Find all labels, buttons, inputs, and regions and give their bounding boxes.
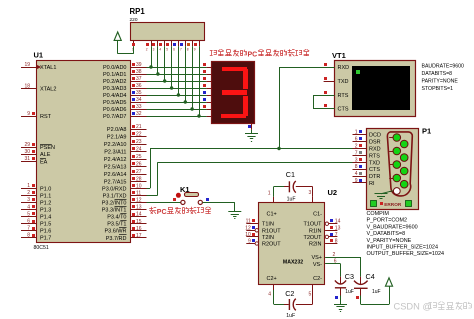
- wire RP1 pin 9 vertical: [199, 46, 201, 116]
- P1 DB9 silhouette: [387, 132, 412, 196]
- svg-text:P1.6: P1.6: [40, 229, 51, 235]
- U1 pin 9 RST: [21, 116, 36, 118]
- svg-text:P1.1: P1.1: [40, 193, 51, 199]
- segment b: [243, 69, 248, 89]
- U1 pin 22 P2.1/A9: [130, 136, 147, 138]
- P1 DB9 pin circle R1: [400, 140, 408, 148]
- display pin indicator seg3: [203, 84, 206, 87]
- svg-text:BAUDRATE=9600: BAUDRATE=9600: [422, 63, 465, 69]
- U2 pin 13 R1IN: [325, 230, 337, 232]
- P1 pin 2 RXD: [353, 148, 367, 150]
- wire P0.1 row to display: [147, 74, 207, 76]
- U1 pin 19 XTAL1: [21, 67, 36, 69]
- svg-text:VT1: VT1: [332, 51, 346, 60]
- svg-text:P2.5/A13: P2.5/A13: [104, 165, 127, 171]
- svg-text:2: 2: [27, 190, 30, 196]
- svg-text:P0.4/AD4: P0.4/AD4: [103, 93, 127, 99]
- svg-text:33: 33: [136, 104, 142, 110]
- red annotation: 向PC机发送字符串: [149, 208, 153, 210]
- display pin stub seg0: [207, 67, 212, 69]
- svg-text:1uF: 1uF: [287, 197, 296, 203]
- wire P0.7 row to display: [147, 116, 207, 118]
- U1 pin 13 P3.3/INT1: [130, 209, 147, 211]
- svg-text:T1OUT: T1OUT: [303, 222, 322, 228]
- wire net TXD: U1 P3.1 to P1 TXD: [147, 195, 158, 197]
- P1 pin 4 DTR: [353, 176, 367, 178]
- svg-text:DATABITS=8: DATABITS=8: [422, 71, 453, 77]
- svg-text:T2IN: T2IN: [262, 235, 274, 241]
- segment d: [221, 114, 246, 118]
- junction node P0.7: [197, 114, 200, 117]
- svg-text:1: 1: [355, 130, 358, 136]
- svg-text:24: 24: [136, 147, 142, 153]
- svg-text:13: 13: [335, 225, 341, 231]
- svg-text:P1.5: P1.5: [40, 222, 51, 228]
- U2 pin 5 C2- bottom: [312, 284, 314, 290]
- svg-text:DSR: DSR: [369, 140, 381, 146]
- U1 pin 34 P0.5/AD5: [130, 102, 147, 104]
- wire P0.0 row to display: [147, 67, 207, 69]
- svg-text:18: 18: [24, 83, 30, 89]
- svg-text:P0.1/AD1: P0.1/AD1: [103, 72, 127, 78]
- svg-text:8: 8: [187, 48, 189, 52]
- P1 ERROR indicator right square: [406, 201, 412, 207]
- P1 ERROR text with red square: [380, 202, 383, 205]
- display pin stub seg3: [207, 88, 212, 90]
- U1 pin 6 P1.5: [21, 223, 36, 225]
- P1 DB9 pin circle L2: [389, 151, 393, 153]
- svg-text:RTS: RTS: [369, 153, 380, 159]
- svg-text:P2.7/A15: P2.7/A15: [104, 180, 127, 186]
- svg-text:15: 15: [136, 219, 142, 225]
- svg-text:C1+: C1+: [267, 212, 277, 218]
- svg-text:1: 1: [268, 190, 271, 196]
- svg-text:P3.6/WR: P3.6/WR: [104, 229, 126, 235]
- U1 pin 29 PSEN: [21, 147, 36, 149]
- RP1 pin 5: [171, 41, 173, 47]
- wire RP1 pin 7 vertical: [185, 46, 187, 102]
- U1 pin 10 P3.0/RXD: [130, 188, 147, 190]
- P1 DB9 pin circle R3: [400, 167, 408, 175]
- svg-text:P1.4: P1.4: [40, 215, 51, 221]
- display pin stub seg5: [207, 102, 212, 104]
- svg-text:34: 34: [136, 97, 142, 103]
- svg-text:P0.2/AD2: P0.2/AD2: [103, 79, 127, 85]
- svg-text:4: 4: [268, 292, 271, 298]
- svg-text:P2.4/A12: P2.4/A12: [104, 157, 127, 163]
- U1 pin 26 P2.5/A13: [130, 166, 147, 168]
- svg-text:STOPBITS=1: STOPBITS=1: [422, 86, 454, 92]
- U1 pin 8 P1.7: [21, 237, 36, 239]
- U2 pin 8 R2IN: [325, 243, 337, 245]
- svg-text:5: 5: [166, 48, 168, 52]
- svg-text:R2IN: R2IN: [309, 242, 322, 248]
- svg-text:5: 5: [27, 211, 30, 217]
- svg-text:V_PARITY=NONE: V_PARITY=NONE: [367, 238, 412, 244]
- ground for K1: [228, 211, 241, 213]
- svg-text:14: 14: [136, 212, 142, 218]
- U2 pin 10 T2IN: [246, 236, 258, 238]
- svg-text:3: 3: [153, 48, 155, 52]
- P1 pin 7 RTS: [353, 155, 367, 157]
- wire RP1 pin 6 vertical: [178, 46, 180, 95]
- wire RP1 pin 8 vertical: [192, 46, 194, 109]
- segment g: [222, 90, 247, 95]
- svg-text:8: 8: [27, 233, 30, 239]
- RP1 pin 4: [164, 41, 166, 47]
- svg-text:P2.3/A11: P2.3/A11: [104, 150, 126, 156]
- resistor pack RP1 body: [131, 23, 205, 41]
- display pin stub seg6: [207, 109, 212, 111]
- svg-text:RI: RI: [369, 181, 375, 187]
- svg-text:6: 6: [355, 137, 358, 143]
- U1 pin 14 P3.4/T0: [130, 216, 147, 218]
- svg-text:C1: C1: [286, 170, 295, 179]
- svg-text:14: 14: [335, 219, 341, 225]
- 7-segment display body: [212, 62, 255, 124]
- U1 pin 23 P2.2/A10: [130, 144, 147, 146]
- svg-text:P3.0/RXD: P3.0/RXD: [102, 186, 126, 192]
- U1 XTAL1 clock arrow: [36, 65, 41, 70]
- svg-text:CTS: CTS: [369, 167, 380, 173]
- IC U2 MAX232 body: [259, 203, 325, 285]
- RP1 pin 9: [199, 41, 201, 47]
- U2 pin 3 C1- top: [312, 197, 314, 203]
- button K1: [181, 200, 185, 204]
- svg-text:26: 26: [136, 162, 142, 168]
- svg-text:CTS: CTS: [338, 107, 349, 113]
- U1 pin 39 P0.0/AD0: [130, 67, 147, 69]
- svg-text:11: 11: [246, 219, 251, 225]
- wire K1 to ground: [203, 202, 235, 204]
- svg-text:C2+: C2+: [267, 276, 277, 282]
- U1 pin 11 P3.1/TXD: [130, 195, 147, 197]
- svg-text:11: 11: [136, 191, 141, 197]
- RP1 pin 8: [192, 41, 194, 47]
- U1 pin 27 P2.6/A14: [130, 174, 147, 176]
- RP1 pin 1: [133, 41, 135, 47]
- svg-text:3: 3: [355, 157, 358, 163]
- VT1 TXD stub: [324, 81, 335, 83]
- svg-text:9: 9: [27, 111, 30, 117]
- svg-text:10: 10: [136, 183, 142, 189]
- display pin indicator seg4: [203, 91, 206, 94]
- svg-text:OUTPUT_BUFFER_SIZE=1024: OUTPUT_BUFFER_SIZE=1024: [367, 251, 445, 257]
- U2 pin 7 T2OUT: [325, 236, 337, 238]
- wire C3 to ground: [340, 288, 342, 296]
- U1 pin 30 ALE: [21, 154, 36, 156]
- ground for display: [251, 130, 253, 134]
- svg-text:P1: P1: [422, 127, 431, 136]
- svg-text:6: 6: [27, 218, 30, 224]
- U2 pin 4 C2+ bottom: [273, 284, 275, 290]
- display pin indicator seg0: [203, 63, 206, 66]
- wire P0.5 row to display: [147, 102, 207, 104]
- svg-text:MAX232: MAX232: [283, 260, 303, 266]
- svg-text:2: 2: [146, 48, 148, 52]
- svg-text:PC: PC: [157, 209, 167, 216]
- svg-text:P0.0/AD0: P0.0/AD0: [103, 65, 127, 71]
- U1 pin 35 P0.4/AD4: [130, 95, 147, 97]
- junction node P0.4: [177, 93, 180, 96]
- K1 pin indicators: [173, 198, 176, 201]
- svg-text:PC: PC: [248, 51, 258, 58]
- display pin stub seg4: [207, 95, 212, 97]
- svg-text:5: 5: [309, 292, 312, 298]
- wire RP1 pin 5 vertical: [171, 46, 173, 88]
- svg-text:35: 35: [136, 90, 142, 96]
- wire U2 pin4 to C2: [273, 290, 275, 304]
- wire net RXD to VT1 RXD: [279, 67, 281, 149]
- wire RP1 pin 3 vertical: [157, 46, 159, 74]
- junction node P0.3: [170, 86, 173, 89]
- svg-text:P3.7/RD: P3.7/RD: [106, 236, 127, 242]
- U1 pin 33 P0.6/AD6: [130, 109, 147, 111]
- svg-text:P2.6/A14: P2.6/A14: [104, 172, 127, 178]
- U1 pin 7 P1.6: [21, 230, 36, 232]
- svg-text:12: 12: [136, 198, 142, 204]
- svg-text:2: 2: [355, 144, 358, 150]
- svg-text:ALE: ALE: [40, 152, 51, 158]
- U1 pin 18 XTAL2: [21, 88, 36, 90]
- svg-text:1uF: 1uF: [286, 313, 295, 319]
- svg-text:7: 7: [27, 225, 30, 231]
- P1 DB9 shell pin circle: [389, 191, 393, 193]
- wire P0.3 row to display: [147, 88, 207, 90]
- svg-text:4: 4: [355, 171, 358, 177]
- wire U2 pin1 to C1: [273, 187, 275, 197]
- junction node P0.0: [149, 65, 152, 68]
- P1 internal ground: [381, 191, 393, 194]
- svg-text:16: 16: [136, 226, 142, 232]
- svg-text:9: 9: [248, 239, 251, 245]
- wire C4 to power: [360, 288, 362, 296]
- svg-text:21: 21: [136, 124, 142, 130]
- svg-text:P1.2: P1.2: [40, 200, 51, 206]
- svg-text:VS-: VS-: [313, 262, 322, 268]
- RP1 pin 6: [178, 41, 180, 47]
- display pin indicator seg2: [203, 77, 206, 80]
- svg-text:CSDN @: CSDN @: [394, 302, 432, 312]
- U1 pin 1 P1.0: [21, 188, 36, 190]
- svg-text:3: 3: [309, 190, 312, 196]
- wire P0.2 row to display: [147, 81, 207, 83]
- svg-text:RST: RST: [40, 114, 52, 120]
- U1 pin 15 P3.5/T1: [130, 223, 147, 225]
- wire C1 to U2 pin3: [296, 186, 313, 188]
- svg-text:TXD: TXD: [369, 160, 380, 166]
- U1 pin 32 P0.7/AD7: [130, 116, 147, 118]
- junction node P0.6: [190, 107, 193, 110]
- wire RP1 pin 4 vertical: [164, 46, 166, 81]
- svg-text:4: 4: [159, 48, 161, 52]
- segment a: [222, 67, 247, 71]
- wire P0.4 row to display: [147, 95, 207, 97]
- junction node P0.1: [156, 72, 159, 75]
- svg-text:XTAL1: XTAL1: [40, 65, 56, 71]
- P1 ERROR indicator left square: [371, 201, 377, 207]
- svg-text:7: 7: [335, 232, 338, 238]
- display pin stub seg7: [207, 116, 212, 118]
- svg-text:9: 9: [194, 48, 196, 52]
- svg-text:U2: U2: [328, 188, 338, 197]
- svg-text:36: 36: [136, 83, 142, 89]
- wire VT1 RTS-CTS loop: [313, 95, 335, 97]
- svg-text:1uF: 1uF: [345, 289, 354, 295]
- svg-text:RTS: RTS: [338, 93, 349, 99]
- wire power to RP1 pin 1: [117, 40, 119, 53]
- svg-text:P3.3/INT1: P3.3/INT1: [102, 208, 127, 214]
- capacitor C2: [288, 299, 290, 310]
- P1 pin 3 TXD: [353, 162, 367, 164]
- svg-text:EA: EA: [40, 159, 48, 165]
- U1 pin 28 P2.7/A15: [130, 181, 147, 183]
- svg-text:C4: C4: [366, 272, 375, 281]
- svg-text:INPUT_BUFFER_SIZE=1024: INPUT_BUFFER_SIZE=1024: [367, 245, 438, 251]
- svg-text:P3.5/T1: P3.5/T1: [107, 222, 126, 228]
- U2 pin 9 R2OUT: [246, 243, 258, 245]
- VT1 cursor: [356, 70, 360, 74]
- svg-text:P1.3: P1.3: [40, 208, 51, 214]
- svg-text:PSEN: PSEN: [40, 145, 55, 151]
- P1 DB9 pin circle R2: [400, 154, 408, 162]
- U1 pin 17 P3.7/RD: [130, 237, 147, 239]
- svg-text:8: 8: [335, 239, 338, 245]
- svg-text:2: 2: [333, 252, 336, 258]
- P1 DB9 pin circle L4: [389, 178, 393, 180]
- wire U1 P3.2 to K1: [147, 202, 181, 204]
- capacitor C1: [288, 181, 290, 192]
- svg-text:7: 7: [355, 150, 358, 156]
- P1 pin 9 RI: [353, 182, 367, 184]
- segment c: [243, 96, 248, 116]
- U1 pin 2 P1.1: [21, 195, 36, 197]
- U1 pin 25 P2.4/A12: [130, 159, 147, 161]
- U2 pin 12 R1OUT: [246, 230, 258, 232]
- svg-text:U1: U1: [34, 51, 44, 60]
- C3 pin indicator: [335, 296, 338, 299]
- svg-text:37: 37: [136, 76, 142, 82]
- svg-text:80C51: 80C51: [34, 245, 49, 251]
- capacitor C4: [354, 281, 368, 285]
- capacitor C3: [335, 280, 346, 284]
- wire C2 to U2 pin5: [296, 304, 313, 306]
- svg-text:1: 1: [27, 183, 30, 189]
- U1 pin 5 P1.4: [21, 216, 36, 218]
- svg-text:27: 27: [136, 169, 142, 175]
- svg-text:29: 29: [24, 142, 30, 148]
- svg-text:8: 8: [355, 164, 358, 170]
- svg-text:220: 220: [130, 17, 138, 23]
- svg-text:V_DATABITS=8: V_DATABITS=8: [367, 231, 406, 237]
- U2 pin 11 T1IN: [246, 223, 258, 225]
- U1 pin 36 P0.3/AD3: [130, 88, 147, 90]
- U2 pin 1 C1+ top: [273, 197, 275, 203]
- svg-text:9: 9: [355, 178, 358, 184]
- svg-text:25: 25: [136, 154, 142, 160]
- svg-text:T2OUT: T2OUT: [303, 235, 322, 241]
- wire U2 VS- to C3: [325, 263, 340, 265]
- wire U2 VS+ to C4: [325, 257, 361, 259]
- svg-text:P3.1/TXD: P3.1/TXD: [103, 193, 127, 199]
- wire P0.6 row to display: [147, 109, 207, 111]
- U1 pin 4 P1.3: [21, 209, 36, 211]
- svg-text:38: 38: [136, 69, 142, 75]
- svg-text:ERROR: ERROR: [384, 202, 402, 207]
- VT1 screen: [352, 66, 410, 110]
- svg-text:7: 7: [180, 48, 182, 52]
- RP1 pin 7: [185, 41, 187, 47]
- ground for C3: [334, 304, 347, 306]
- U1 pin 3 P1.2: [21, 202, 36, 204]
- svg-text:32: 32: [136, 111, 142, 117]
- P1 DB9 pin circle L3: [389, 164, 393, 166]
- junction node RXD: [277, 147, 280, 150]
- svg-text:P_PORT=COM2: P_PORT=COM2: [367, 218, 408, 224]
- svg-text:C3: C3: [345, 272, 354, 281]
- svg-text:P0.5/AD5: P0.5/AD5: [103, 100, 127, 106]
- svg-text:P3.4/T0: P3.4/T0: [107, 215, 126, 221]
- svg-text:DTR: DTR: [369, 174, 380, 180]
- P1 pin 8 CTS: [353, 169, 367, 171]
- svg-text:P1.0: P1.0: [40, 186, 51, 192]
- svg-text:P1.7: P1.7: [40, 236, 51, 242]
- svg-text:V_BAUDRATE=9600: V_BAUDRATE=9600: [367, 224, 418, 230]
- svg-text:6: 6: [173, 48, 175, 52]
- svg-text:30: 30: [24, 149, 30, 155]
- svg-text:P2.1/A9: P2.1/A9: [107, 135, 127, 141]
- U1 pin 16 P3.6/WR: [130, 230, 147, 232]
- power +5V terminal near C4: [385, 278, 392, 286]
- svg-text:13: 13: [136, 205, 142, 211]
- P1 pin 1 DCD: [353, 134, 367, 136]
- RP1 pin 2: [151, 41, 153, 47]
- display pin indicator seg1: [203, 70, 206, 73]
- svg-text:R2OUT: R2OUT: [262, 242, 281, 248]
- svg-text:P2.0/A8: P2.0/A8: [107, 127, 127, 133]
- svg-text:RXD: RXD: [338, 65, 350, 71]
- display pin indicator seg5: [203, 98, 206, 101]
- svg-text:1uF: 1uF: [372, 289, 381, 295]
- display pin indicator seg6: [203, 105, 206, 108]
- svg-text:RXD: RXD: [369, 147, 381, 153]
- junction node P0.5: [184, 100, 187, 103]
- red annotation: 数码管显示PC发送的数字字符: [210, 50, 213, 52]
- svg-text:VS+: VS+: [311, 255, 322, 261]
- svg-text:31: 31: [24, 156, 30, 162]
- svg-text:R1OUT: R1OUT: [262, 228, 281, 234]
- svg-text:12: 12: [245, 225, 251, 231]
- svg-text:4: 4: [27, 204, 30, 210]
- svg-text:P0.3/AD3: P0.3/AD3: [103, 86, 127, 92]
- svg-text:17: 17: [136, 233, 142, 239]
- svg-text:COMPIM: COMPIM: [367, 211, 390, 217]
- svg-text:3: 3: [27, 197, 30, 203]
- U1 pin 38 P0.1/AD1: [130, 74, 147, 76]
- P1 DB9 pin circle R4: [400, 180, 408, 188]
- svg-text:P0.7/AD7: P0.7/AD7: [103, 114, 127, 120]
- svg-text:P2.2/A10: P2.2/A10: [104, 142, 127, 148]
- connector P1 COMPIM body: [367, 129, 419, 210]
- IC U1 80C51 body: [37, 61, 131, 243]
- wire RP1 pin 2 vertical: [151, 46, 153, 67]
- svg-text:19: 19: [24, 62, 30, 68]
- display common pin: [251, 123, 253, 129]
- svg-text:10: 10: [245, 232, 251, 238]
- junction node P0.2: [163, 79, 166, 82]
- svg-text:P0.6/AD6: P0.6/AD6: [103, 107, 127, 113]
- power +5V terminal for RP1: [114, 32, 121, 40]
